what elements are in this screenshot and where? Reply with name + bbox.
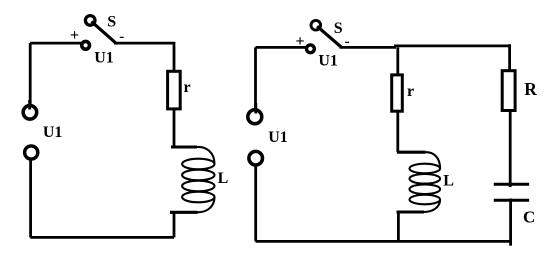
svg-text:-: - (345, 34, 350, 50)
svg-text:+: + (70, 27, 79, 44)
svg-text:+: + (296, 33, 305, 50)
svg-text:U1: U1 (318, 53, 338, 70)
svg-text:S: S (107, 14, 116, 31)
svg-text:R: R (524, 79, 537, 99)
svg-text:L: L (443, 173, 454, 190)
svg-text:r: r (183, 79, 190, 96)
svg-text:U1: U1 (268, 129, 288, 146)
svg-text:-: - (119, 29, 124, 45)
svg-text:U1: U1 (43, 124, 63, 141)
svg-text:L: L (218, 170, 229, 187)
svg-text:C: C (523, 208, 535, 227)
svg-text:S: S (334, 20, 343, 37)
svg-text:r: r (407, 83, 414, 100)
svg-text:U1: U1 (94, 49, 114, 66)
